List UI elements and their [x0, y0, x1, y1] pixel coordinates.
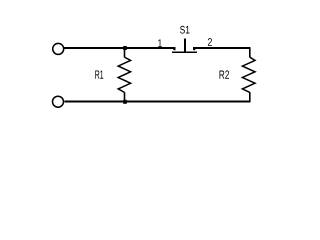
label pin 2 [208, 38, 212, 46]
terminal T1 (top-left input) [53, 43, 64, 54]
S1 movable bar [172, 51, 197, 53]
S1 right contact [193, 47, 195, 50]
resistor R2 [242, 48, 255, 102]
wire bottom: T2 to R2 bottom [64, 101, 250, 103]
terminal T2 (bottom-left input) [53, 96, 64, 107]
label R2 [219, 70, 229, 78]
switch S1 [172, 38, 197, 52]
S1 actuator [184, 38, 186, 52]
label pin 1 [158, 39, 162, 47]
label S1 [180, 26, 189, 34]
R2 bottom lead [249, 92, 251, 101]
R2 top lead [249, 48, 251, 57]
R1 zigzag [118, 57, 130, 92]
resistor R1 [118, 48, 130, 102]
R2 zigzag [242, 57, 255, 92]
node junction at R1 top [123, 46, 127, 50]
node junction at R1 bottom [123, 100, 127, 104]
wire: switch pin 2 to top-right corner [193, 47, 251, 49]
S1 left contact [173, 47, 175, 50]
R1 top lead [124, 48, 126, 57]
wire top: T1 to switch pin 1 [64, 47, 175, 49]
R1 bottom lead [124, 92, 126, 101]
label R1 [95, 70, 103, 78]
wire: top-right corner down to R2 [249, 47, 251, 57]
